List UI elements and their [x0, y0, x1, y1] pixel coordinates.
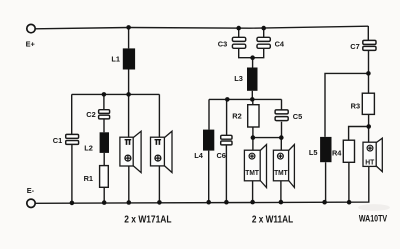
svg-text:C6: C6	[216, 151, 225, 160]
svg-text:L2: L2	[84, 144, 93, 153]
svg-text:L4: L4	[194, 151, 204, 160]
svg-text:HT: HT	[365, 157, 374, 166]
svg-text:L1: L1	[111, 54, 120, 63]
svg-text:R3: R3	[351, 101, 360, 110]
svg-text:TMT: TMT	[245, 168, 259, 177]
svg-text:R1: R1	[84, 174, 93, 183]
svg-text:E-: E-	[27, 186, 35, 195]
svg-text:L5: L5	[309, 148, 318, 157]
svg-text:TMT: TMT	[274, 168, 288, 177]
svg-text:C5: C5	[293, 112, 302, 121]
svg-text:2 x W11AL: 2 x W11AL	[252, 215, 293, 226]
svg-text:C1: C1	[53, 136, 62, 145]
svg-text:R4: R4	[332, 149, 342, 158]
svg-text:L3: L3	[234, 74, 243, 83]
svg-text:R2: R2	[232, 111, 241, 120]
svg-text:2 x W171AL: 2 x W171AL	[124, 215, 171, 226]
svg-text:C4: C4	[275, 40, 285, 49]
svg-text:C7: C7	[350, 42, 359, 51]
svg-text:WA10TV: WA10TV	[359, 213, 387, 223]
svg-text:C2: C2	[86, 110, 95, 119]
svg-text:C3: C3	[218, 40, 227, 49]
svg-text:E+: E+	[26, 39, 36, 48]
